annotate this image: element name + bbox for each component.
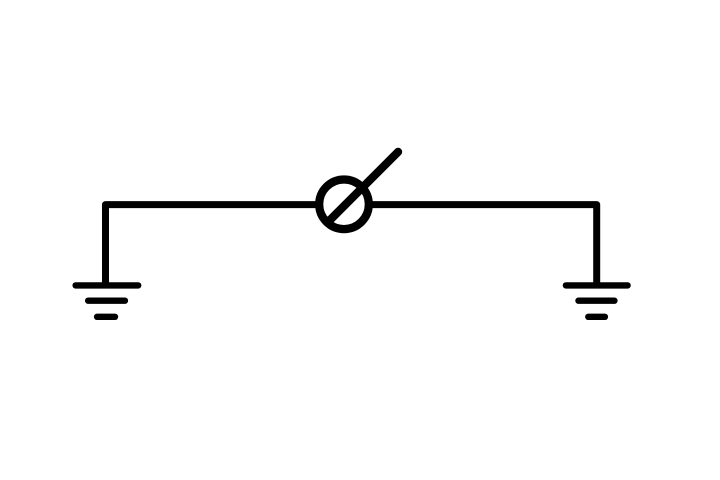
ground (left): middle bar xyxy=(88,298,125,304)
ground (right): middle bar xyxy=(579,298,615,304)
adjustable element U1: circle body xyxy=(319,180,369,230)
ground (left): top bar xyxy=(76,282,139,288)
ground (right): top bar xyxy=(566,282,628,288)
ground (left): bottom bar xyxy=(97,314,115,320)
ground (right): bottom bar xyxy=(588,314,605,320)
adjustable element U1: adjustment slash xyxy=(328,152,398,222)
wire: right L-segment from component across and down to ground xyxy=(371,205,597,286)
wire: left L-segment from ground up and across to component xyxy=(106,205,319,286)
